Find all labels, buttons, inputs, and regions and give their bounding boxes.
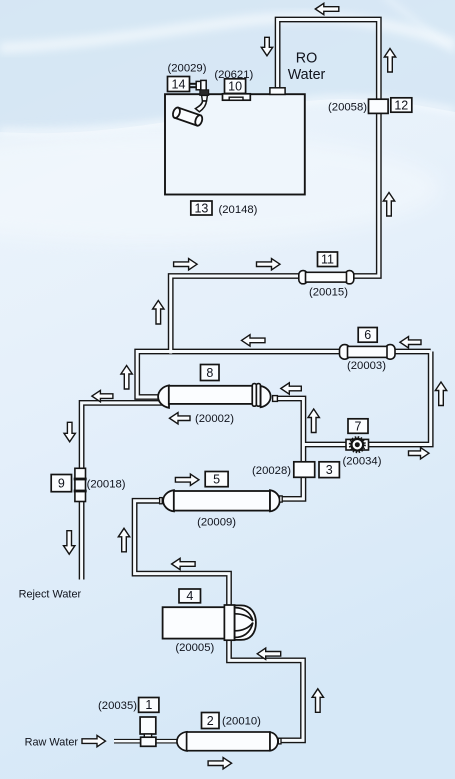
flow arrow right riser up mid (383, 193, 394, 217)
wire filter-6 row with drop to filter-8 upper port (outer) (137, 352, 431, 398)
svg-text:4: 4 (186, 589, 193, 603)
inline module U12 (20058) (369, 99, 389, 113)
wire filter-5 left loop down and right to pump inlet (bore) (135, 501, 229, 612)
valve V7 (20034) body (346, 439, 369, 450)
svg-text:5: 5 (213, 472, 220, 486)
label box 12 (391, 98, 412, 112)
label box 9 (51, 475, 71, 492)
valve V1 neck (144, 734, 151, 738)
flow arrow into tank down (261, 37, 272, 56)
svg-text:(20002): (20002) (195, 413, 234, 425)
svg-text:(20034): (20034) (343, 455, 382, 467)
svg-text:(20621): (20621) (214, 69, 253, 81)
membrane housing F8 right dome (261, 386, 271, 407)
label box 10 (225, 79, 246, 94)
svg-text:(20035): (20035) (98, 700, 137, 712)
flow arrow filter-11 row right 2 (257, 259, 281, 270)
flow arrow reject down 2 (63, 531, 74, 555)
flow arrow valve row right (409, 448, 430, 459)
svg-text:(20028): (20028) (252, 465, 291, 477)
svg-text:Water: Water (288, 67, 326, 83)
label box 1 (139, 698, 159, 713)
probe bent tube (195, 101, 206, 112)
wire reject line from filter-8 lower port to reject outlet (bore) (82, 403, 164, 580)
flow arrow top loop left (315, 3, 339, 14)
svg-text:12: 12 (394, 98, 408, 112)
filter F6 (20003) (340, 345, 350, 360)
wire pump outlet down, right and down to filter-2 right port (outer) (229, 634, 303, 740)
filter F2 right nipple (278, 738, 281, 744)
restrictor U9 bands (74, 478, 87, 481)
label box 4 (179, 589, 201, 603)
label box 11 (318, 252, 338, 267)
flow arrow filter-6 row right left (400, 337, 421, 348)
valve V1 tee (141, 737, 156, 746)
svg-text:6: 6 (364, 328, 371, 342)
probe neck below tank top (202, 95, 208, 101)
label box 3 (319, 462, 339, 478)
flow arrow reject left (92, 390, 113, 401)
probe cylinder in tank (172, 107, 204, 127)
membrane housing F8 outlet nipple (273, 396, 278, 402)
svg-text:1: 1 (145, 698, 152, 712)
wire valve-7 row and right riser up to filter-6 row (bore) (303, 352, 430, 445)
svg-text:7: 7 (355, 419, 362, 433)
wire pump outlet down, right and down to filter-2 right port (bore) (229, 634, 303, 740)
pump M4 head (235, 605, 256, 640)
svg-text:(20018): (20018) (87, 479, 126, 491)
wire filter-6 row with drop to filter-8 upper port (bore) (137, 352, 431, 398)
membrane housing F8 body (169, 386, 253, 404)
wire filter-5 left loop down and right to pump inlet (outer) (135, 501, 229, 612)
svg-text:3: 3 (326, 463, 333, 477)
restrictor U9 (20018) body (75, 468, 86, 501)
flow arrow above filter-5 right (175, 474, 199, 485)
svg-text:RO: RO (296, 51, 317, 67)
sensor plug P14 (20029) prongs (189, 83, 196, 85)
flow arrow bottom riser up (312, 689, 323, 713)
flow arrow left drop riser up (153, 301, 164, 325)
pipe flange on tank top (270, 88, 285, 95)
svg-text:(20148): (20148) (219, 204, 258, 216)
svg-text:Raw Water: Raw Water (25, 736, 79, 748)
label box 14 (168, 77, 190, 92)
wire filter-8 outlet right, main down riser to filter-5 right port (bore) (272, 399, 303, 499)
label box 8 (201, 365, 220, 381)
filter F2 body (187, 732, 270, 751)
flow arrow left of filter-8 up (121, 366, 132, 390)
svg-text:11: 11 (321, 253, 334, 267)
sensor plug body (196, 81, 201, 89)
svg-text:10: 10 (228, 79, 242, 93)
wire raw water inlet line (outer) (114, 739, 180, 744)
flow arrow below filter-2 right (208, 758, 232, 769)
flow arrow filter-11 row right 1 (174, 259, 198, 270)
flow arrow filter-5 loop left (172, 558, 196, 569)
module U3 (20028) (294, 462, 315, 478)
flow arrow below filter-8 left (170, 413, 191, 424)
svg-text:(20015): (20015) (309, 287, 348, 299)
svg-text:2: 2 (207, 714, 214, 728)
svg-text:(20005): (20005) (175, 642, 214, 654)
probe gland cap on tank top (200, 90, 209, 96)
flow arrow filter-5 loop up (118, 528, 129, 552)
svg-text:(20058): (20058) (328, 101, 367, 113)
label box 7 (348, 419, 368, 434)
level switch U10 (20621) pedestal (223, 94, 251, 100)
wire filter-8 outlet right, main down riser to filter-5 right port (outer) (272, 399, 303, 499)
tank T13 (20148) RO water tank (165, 94, 305, 194)
wire top loop: tank flange up, across, down right side to filter-11 row (outer) (278, 20, 379, 277)
valve V1 (20035) body (140, 717, 156, 734)
valve V7 knob (350, 437, 365, 452)
flow arrow right riser up top (384, 49, 395, 73)
label box 6 (358, 328, 377, 343)
wire reject line from filter-8 lower port to reject outlet (outer) (82, 403, 164, 580)
pump M4 vanes (235, 608, 253, 621)
svg-text:14: 14 (172, 77, 186, 91)
filter F5 body (174, 491, 270, 511)
flow arrow into filter-8 left (281, 383, 302, 394)
svg-text:9: 9 (58, 476, 65, 490)
pump M4 flange (224, 605, 234, 640)
filter F5 (20009) left dome (163, 490, 174, 511)
filter F11 (20015) (299, 271, 308, 284)
svg-text:(20009): (20009) (197, 516, 236, 528)
filter F2 right dome (270, 732, 278, 751)
svg-text:(20029): (20029) (168, 63, 207, 75)
svg-text:(20010): (20010) (222, 716, 261, 728)
flow arrow filter-6 row left (242, 335, 266, 346)
svg-text:8: 8 (206, 366, 213, 380)
svg-text:Reject Water: Reject Water (19, 588, 82, 600)
flow arrow right riser-2 up (435, 382, 446, 406)
flow arrow raw water right (82, 735, 106, 746)
svg-text:(20003): (20003) (347, 360, 386, 372)
wire top loop: tank flange up, across, down right side to filter-11 row (bore) (278, 20, 379, 277)
svg-text:13: 13 (194, 201, 208, 215)
flow arrow pump outlet left (257, 648, 281, 659)
wire filter-11 row left and down to filter-6 row tee (bore) (171, 276, 303, 354)
pump M4 (20005) motor body (163, 607, 225, 638)
filter F2 (20010) left dome (177, 732, 187, 751)
wire filter-11 row left and down to filter-6 row tee (outer) (171, 276, 303, 354)
label box 13 (191, 201, 212, 215)
label box 5 (205, 472, 228, 487)
label box 2 (202, 713, 220, 729)
filter F5 left nipple (160, 498, 163, 504)
flow arrow main riser up (308, 409, 319, 433)
membrane housing F8 (20002) left dome (158, 385, 169, 407)
wire valve-7 row and right riser up to filter-6 row (outer) (303, 352, 430, 445)
filter F5 right nipple (280, 496, 283, 502)
flow arrow reject down 1 (64, 422, 75, 442)
wire raw water inlet line (bore) (114, 740, 180, 742)
membrane housing F8 rings (252, 384, 256, 407)
filter F5 right dome (270, 490, 280, 511)
